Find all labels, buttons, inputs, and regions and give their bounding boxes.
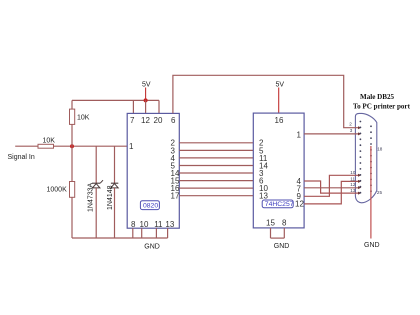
IC2 part label box 74HC257 [262,200,294,208]
svg-text:GND: GND [364,242,380,249]
svg-text:74HC257: 74HC257 [265,201,294,208]
wire: IC1 pin 13 drop to ground bus [167,228,169,238]
svg-text:0820: 0820 [143,203,158,210]
wire: IC2 pin 9 to DB25 pin 10 [304,174,361,197]
svg-text:1: 1 [297,130,302,139]
diode 1N4148 [111,146,119,238]
svg-text:11: 11 [350,176,355,181]
wire: 5V stub to rail [145,88,147,101]
svg-text:11: 11 [154,220,163,229]
wire: IC1 pin 14 to IC2 pin 3 [179,172,253,174]
wire: IC1 pin 4 to IC2 pin 11 [179,157,253,159]
svg-text:1: 1 [129,142,134,151]
wire: IC2 pin 4 to DB25 pin 13 [304,181,361,195]
svg-text:1N4733A: 1N4733A [87,182,94,212]
svg-text:12: 12 [295,200,304,209]
wire: IC1 pin 11 drop to ground bus [155,228,157,238]
wire: rail drop to IC1 pin 20 [158,100,160,113]
wire: junction up to pull-up resistor [71,124,73,146]
svg-text:13: 13 [259,192,268,201]
ground bus under left section and IC1 [72,237,168,239]
svg-text:5V: 5V [142,81,151,88]
svg-text:10K: 10K [43,137,56,144]
wire: IC2 pin 7 to DB25 pin 12 [304,186,361,189]
svg-text:13: 13 [350,188,356,193]
svg-text:7: 7 [130,116,135,125]
svg-text:17: 17 [171,192,180,201]
svg-text:8: 8 [131,220,136,229]
svg-text:Male DB25: Male DB25 [360,93,395,101]
svg-text:25: 25 [377,190,383,195]
connector J1 DB25 body [355,113,376,202]
resistor 10K (series input) [38,144,54,148]
svg-text:GND: GND [274,243,290,250]
svg-text:2: 2 [349,122,352,127]
wire: IC2 pin 12 to DB25 pin 11 [304,180,361,204]
svg-text:6: 6 [171,116,176,125]
svg-text:To PC printer port: To PC printer port [353,103,411,111]
wire: IC1 pin 17 to IC2 pin 13 [179,195,253,197]
wire: pull-up resistor to 5V rail [71,100,73,109]
wire: IC1 pin 6 up and across to DB25 pin 2 [173,75,361,129]
op IC U1 ADC0820 body [127,113,179,228]
svg-text:10: 10 [140,220,149,229]
svg-text:Signal In: Signal In [8,154,35,161]
node: 5V rail junction [144,98,148,102]
resistor 1000K [70,182,75,198]
wire: IC1 pin 15 to IC2 pin 6 [179,180,253,182]
node: signal junction [70,144,74,148]
svg-text:20: 20 [154,116,163,125]
IC U2 74HC257 body [253,113,304,228]
svg-text:1000K: 1000K [47,186,68,193]
svg-text:12: 12 [141,116,150,125]
svg-text:13: 13 [165,220,174,229]
wire: 5V rail over IC1 [72,99,159,101]
zener diode 1N4733A [92,146,103,238]
wire: 5V stub to IC2 pin 16 [278,88,280,114]
svg-text:8: 8 [282,219,287,228]
wire: rail drop to IC1 pin 7 [132,100,134,113]
svg-text:15: 15 [266,219,275,228]
svg-text:12: 12 [350,182,356,187]
DB25 left pin column (pins 1-13) [360,121,362,194]
svg-text:10K: 10K [77,115,90,122]
svg-text:5V: 5V [276,81,285,88]
wire: rail drop to IC1 pin 12 [145,100,147,113]
wire: IC2 pin 1 to DB25 pin 3 [304,132,361,135]
wire: signal input lead [15,145,38,147]
wire: IC2 pin 15 drop to ground bus [270,228,272,238]
wire: resistor to IC1 pin 1 [54,145,128,147]
resistor 10K (pull-up) [70,109,75,124]
wire: IC1 pin 16 to IC2 pin 10 [179,187,253,189]
IC1 part label box 0820 [140,201,159,210]
wire: IC1 pin 10 drop to ground bus [141,228,143,238]
svg-text:3: 3 [350,128,353,133]
DB25 right pin column (pins 14-25) [370,125,372,192]
wire: DB25 ground pins 18-25 to GND [370,146,372,239]
svg-text:GND: GND [144,244,160,251]
svg-text:1N4148: 1N4148 [107,185,114,210]
ground bus under IC2 [271,237,285,239]
wire: IC1 pin 8 drop to ground bus [132,228,134,238]
wire: IC2 pin 8 drop to ground bus [283,228,285,238]
svg-text:10: 10 [350,170,356,175]
svg-text:16: 16 [275,116,284,125]
wire: IC1 pin 3 to IC2 pin 5 [179,149,253,151]
wire: IC1 pin 2 to IC2 pin 2 [179,142,253,144]
svg-text:18: 18 [377,146,383,151]
wire: junction down to 1000K [71,146,73,181]
wire: IC1 pin 5 to IC2 pin 14 [179,165,253,167]
wire: 1000K to ground bus [71,197,73,238]
